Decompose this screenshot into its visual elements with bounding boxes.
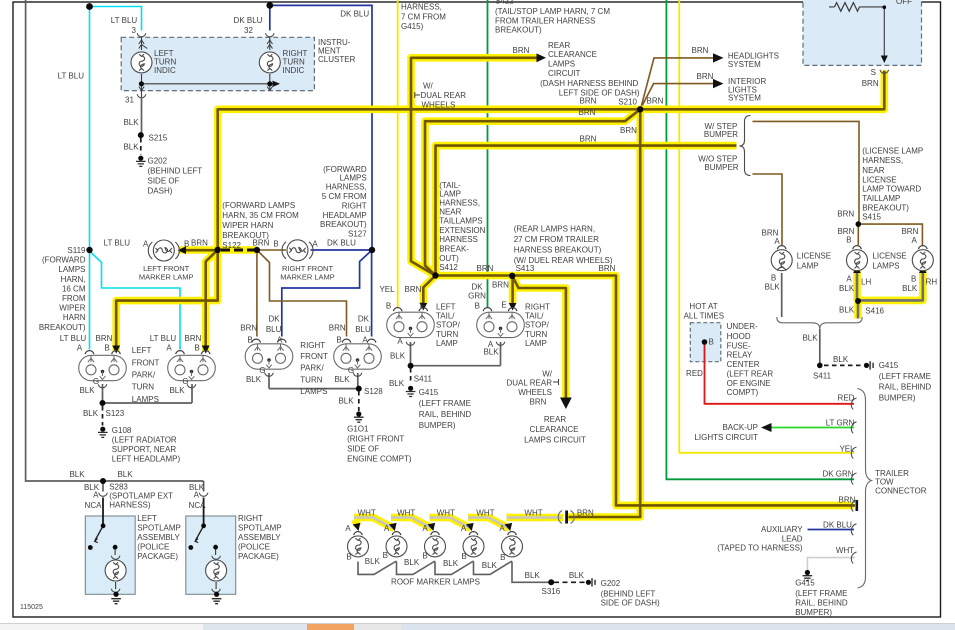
splice S416	[855, 298, 861, 304]
svg-text:LAMPS CIRCUIT: LAMPS CIRCUIT	[524, 436, 586, 445]
svg-text:S416: S416	[865, 307, 884, 316]
wire BRN S210 to interior lights system	[641, 84, 714, 109]
svg-text:S413: S413	[516, 264, 535, 273]
wire BLK cluster pin 31 to S215	[141, 98, 143, 135]
arrow into right tail lamp E	[509, 303, 517, 311]
svg-text:BRN: BRN	[647, 97, 664, 106]
band: roof marker WHT chain	[354, 518, 563, 529]
svg-text:(RIGHT FRONT: (RIGHT FRONT	[347, 435, 404, 444]
svg-text:BRN: BRN	[329, 324, 346, 333]
svg-text:DK GRN: DK GRN	[822, 470, 853, 479]
svg-text:A: A	[194, 491, 200, 500]
svg-text:(LICENSE LAMP: (LICENSE LAMP	[862, 147, 923, 156]
svg-text:A: A	[774, 237, 780, 246]
connector pin 3	[137, 33, 146, 36]
connector S283 left A	[99, 493, 108, 496]
svg-text:32: 32	[244, 26, 253, 35]
wire BLK dashed S123 to G108	[102, 406, 104, 426]
core BRN: S412-S413 bus to trailer connector	[436, 276, 856, 506]
ground G415 under license lamps	[864, 361, 873, 369]
svg-text:BRN: BRN	[185, 334, 202, 343]
wire BRN w/ step bumper to S415	[753, 121, 860, 221]
svg-text:FROM TRAILER HARNESS: FROM TRAILER HARNESS	[495, 16, 595, 25]
svg-text:YEL: YEL	[379, 285, 395, 294]
arrows into roof marker lamps	[353, 523, 361, 531]
svg-text:G1O1: G1O1	[347, 425, 369, 434]
svg-text:WHT: WHT	[397, 509, 415, 518]
spotlamp right bulb	[206, 556, 227, 592]
arrow into RH license lamp ground	[919, 266, 927, 273]
svg-text:A: A	[461, 524, 467, 533]
core BRN: S412 riser bus y145 to step bumper brace	[436, 146, 737, 276]
svg-text:B: B	[846, 236, 851, 245]
svg-text:LICENSE: LICENSE	[797, 252, 831, 261]
wire BLK left frame run to spotlamps	[26, 0, 204, 481]
svg-text:S411: S411	[414, 375, 433, 384]
svg-text:BREAK-: BREAK-	[439, 244, 469, 253]
svg-text:RAIL, BEHIND: RAIL, BEHIND	[795, 599, 848, 608]
svg-text:BLK: BLK	[839, 306, 855, 315]
roof marker lamp 1	[348, 532, 369, 557]
svg-text:G: G	[348, 366, 354, 375]
svg-text:DK BLU: DK BLU	[327, 239, 356, 248]
svg-text:A: A	[499, 524, 505, 533]
svg-text:RAIL, BEHIND: RAIL, BEHIND	[419, 410, 472, 419]
svg-text:ROOF MARKER LAMPS: ROOF MARKER LAMPS	[391, 578, 480, 587]
svg-text:B: B	[336, 336, 341, 345]
svg-text:A: A	[846, 275, 852, 284]
svg-text:5 CM FROM: 5 CM FROM	[322, 192, 367, 201]
wire BRN splice to right park lamp 2 pin B	[257, 250, 347, 337]
svg-text:HARN: HARN	[63, 313, 86, 322]
svg-text:RIGHT: RIGHT	[238, 514, 263, 523]
svg-text:BUMPER): BUMPER)	[419, 421, 456, 430]
wire BRN S210 to headlights system	[641, 58, 714, 109]
W/ DUAL REAR WHEELS tick no.2	[553, 379, 559, 385]
lamp LEFT TURN INDIC	[131, 40, 152, 91]
svg-text:WIPER: WIPER	[59, 304, 85, 313]
tick at roof chain inline connector	[565, 511, 568, 524]
svg-text:(BEHIND LEFT: (BEHIND LEFT	[601, 589, 656, 598]
svg-text:A: A	[345, 524, 351, 533]
wire BRN w/o step bumper to left license lamp A	[753, 174, 783, 245]
band: S412 riser from bus y121	[425, 109, 640, 275]
connector RT pin B	[483, 308, 492, 311]
core BRN: S412 to rear clearance top arrow	[411, 58, 537, 276]
svg-text:HARNESS,: HARNESS,	[439, 199, 480, 208]
underhood fuse-relay center dashed box	[690, 323, 721, 362]
svg-text:CIRCUIT: CIRCUIT	[548, 69, 581, 78]
svg-text:OFF: OFF	[896, 0, 912, 6]
connector LT pin A	[406, 342, 415, 345]
svg-text:B: B	[771, 274, 776, 283]
svg-text:(FORWARD: (FORWARD	[42, 256, 86, 265]
svg-text:S127: S127	[348, 229, 367, 238]
svg-text:PARK/: PARK/	[300, 364, 324, 373]
wire DK BLU top feed to cluster pin 32	[269, 5, 271, 30]
W/ DUAL REAR WHEELS tick no.1	[415, 92, 420, 98]
svg-text:RAIL, BEHIND: RAIL, BEHIND	[879, 383, 932, 392]
wire BLK left park lamps ground to junction	[103, 384, 193, 403]
wire DK BLU S127 to right park lamp 2 pin A	[371, 250, 373, 337]
connector L2 pin B	[201, 351, 210, 354]
connector R1 pin G	[265, 373, 274, 376]
band: S413 to rear clearance lamps circuit (down arrow)	[512, 276, 566, 398]
svg-text:DK: DK	[471, 283, 483, 292]
svg-text:BRN: BRN	[492, 281, 509, 290]
svg-text:NEAR: NEAR	[862, 166, 884, 175]
roof marker lamp 2	[386, 532, 407, 557]
node fuse center B	[702, 339, 708, 345]
svg-text:HARNESS,: HARNESS,	[326, 183, 367, 192]
svg-text:TURN: TURN	[436, 330, 458, 339]
svg-text:WHEELS: WHEELS	[518, 388, 552, 397]
svg-text:DK BLU: DK BLU	[823, 521, 852, 530]
svg-text:G108: G108	[112, 426, 132, 435]
svg-text:BRN: BRN	[580, 97, 597, 106]
switch contact right spotlamp	[201, 523, 206, 528]
svg-text:DK: DK	[358, 315, 370, 324]
svg-text:115025: 115025	[20, 604, 43, 611]
ground right spotlamp	[212, 592, 222, 604]
connector L1 pin A	[85, 351, 94, 354]
svg-text:BLK: BLK	[117, 470, 133, 479]
svg-text:WHT: WHT	[524, 509, 542, 518]
svg-text:WHT: WHT	[476, 509, 494, 518]
band: main feed from headlamp switch to S122	[218, 71, 885, 250]
node cluster left	[139, 81, 144, 86]
svg-text:MARKER LAMP: MARKER LAMP	[280, 273, 335, 282]
svg-text:BUMPER): BUMPER)	[795, 608, 832, 617]
tick at trailer BRN terminal	[856, 500, 859, 511]
svg-text:LEFT: LEFT	[137, 514, 157, 523]
svg-text:RH: RH	[926, 278, 938, 287]
svg-text:LAMPS: LAMPS	[340, 174, 367, 183]
svg-text:BLK: BLK	[69, 470, 85, 479]
svg-text:EXTENSION: EXTENSION	[439, 226, 485, 235]
svg-text:LAMPS: LAMPS	[872, 262, 899, 271]
svg-text:G415: G415	[879, 361, 899, 370]
core BRN: lamp B to S122	[180, 249, 218, 252]
band: S412-S413 bus and elbow down to trailer BRN	[436, 276, 855, 506]
svg-text:BLK: BLK	[525, 571, 541, 580]
svg-text:LEAD: LEAD	[782, 534, 803, 543]
svg-text:RED: RED	[838, 393, 855, 402]
svg-text:TURN: TURN	[525, 330, 547, 339]
wire WHT trailer connector to G415	[807, 558, 855, 570]
svg-text:BRN: BRN	[620, 126, 637, 135]
svg-text:ASSEMBLY: ASSEMBLY	[137, 533, 180, 542]
headlamp switch dashed box	[803, 0, 922, 65]
svg-text:BLK: BLK	[833, 355, 849, 364]
svg-text:FRONT: FRONT	[132, 358, 160, 367]
trailer tow connector brace	[858, 389, 872, 589]
svg-text:LAMP: LAMP	[525, 339, 547, 348]
svg-text:S215: S215	[149, 134, 168, 143]
svg-text:RIGHT: RIGHT	[525, 303, 550, 312]
svg-text:BREAKOUT): BREAKOUT)	[495, 26, 542, 35]
wire BRN splice to right marker lamp B	[257, 249, 286, 251]
svg-text:REAR: REAR	[548, 41, 570, 50]
svg-text:WHT: WHT	[358, 509, 376, 518]
highlighted circuit trace: yellow bands	[116, 58, 923, 529]
svg-text:SIDE OF: SIDE OF	[347, 445, 379, 454]
connector pin 32	[266, 33, 275, 36]
splice S411 left	[408, 363, 414, 369]
svg-text:SUPPORT, NEAR: SUPPORT, NEAR	[112, 445, 177, 454]
lamp assembly LEFT TAIL/STOP/TURN	[387, 312, 435, 337]
svg-text:BACK-UP: BACK-UP	[722, 423, 758, 432]
svg-text:BRN: BRN	[253, 239, 270, 248]
wire DK GRN riser to right tail lamp B	[487, 0, 489, 308]
svg-text:BLK: BLK	[443, 559, 459, 568]
svg-text:BRN: BRN	[837, 210, 854, 219]
svg-text:ASSEMBLY: ASSEMBLY	[238, 533, 281, 542]
arrow into left park lamp2 B	[202, 346, 210, 354]
svg-text:A: A	[166, 344, 172, 353]
wire BLK dashed S411 to G415	[410, 368, 412, 384]
svg-text:HOOD: HOOD	[727, 332, 751, 341]
wire BLK right park lamps ground to S128	[269, 373, 358, 389]
svg-text:BLU: BLU	[266, 325, 282, 334]
splice S316	[548, 579, 554, 585]
svg-text:BRN: BRN	[96, 334, 113, 343]
svg-text:27 CM FROM TRAILER: 27 CM FROM TRAILER	[514, 235, 599, 244]
lamp LICENSE LAMPS RH	[912, 246, 933, 271]
svg-text:ENGINE COMPT): ENGINE COMPT)	[347, 455, 412, 464]
wire BRN S415 to LH license lamp B	[857, 224, 859, 245]
svg-text:7 CM FROM: 7 CM FROM	[401, 13, 446, 22]
svg-text:(LEFT FRAME: (LEFT FRAME	[795, 589, 847, 598]
switch contact left spotlamp	[101, 523, 106, 528]
ground G202 behind dash	[136, 156, 146, 167]
svg-text:DK: DK	[268, 315, 280, 324]
arrow into left tail lamp E	[419, 303, 427, 311]
svg-text:GRN: GRN	[468, 291, 486, 300]
svg-text:SIDE OF DASH): SIDE OF DASH)	[601, 598, 660, 607]
wire BLK S283 drop left	[102, 481, 104, 492]
svg-text:G415: G415	[419, 388, 439, 397]
svg-text:BUMPER: BUMPER	[704, 130, 738, 139]
trailer tow connector terminal hooks	[851, 398, 856, 564]
svg-text:(LEFT RADIATOR: (LEFT RADIATOR	[112, 436, 177, 445]
svg-text:HOT AT: HOT AT	[689, 302, 717, 311]
svg-text:(SPOTLAMP EXT: (SPOTLAMP EXT	[109, 491, 173, 500]
svg-text:G415): G415)	[401, 22, 424, 31]
lamp assembly RIGHT TAIL/STOP/TURN	[477, 312, 525, 337]
svg-text:E: E	[501, 301, 506, 310]
svg-text:S119: S119	[67, 246, 86, 255]
arrow to interior lights system	[713, 79, 724, 88]
svg-text:INDIC: INDIC	[154, 66, 176, 75]
wire LT GRN back-up lights circuit	[763, 427, 854, 429]
svg-text:G: G	[259, 366, 265, 375]
connector R2 pin G	[353, 373, 362, 376]
svg-text:WIPER HARN: WIPER HARN	[222, 221, 273, 230]
svg-text:BLK: BLK	[169, 386, 185, 395]
svg-text:LEFT: LEFT	[132, 346, 152, 355]
wire LT BLU riser to S119 and lamp A	[89, 7, 91, 350]
svg-text:LT BLU: LT BLU	[111, 16, 138, 25]
connector S at headlamp switch	[880, 70, 889, 73]
svg-text:A: A	[384, 524, 390, 533]
svg-text:LAMP TOWARD: LAMP TOWARD	[862, 185, 921, 194]
svg-text:LT BLU: LT BLU	[58, 72, 85, 81]
wire BLK roof marker lamp grounds stair	[358, 561, 551, 582]
svg-text:BRN: BRN	[839, 496, 856, 505]
svg-text:B: B	[386, 302, 391, 311]
svg-text:BLK: BLK	[483, 348, 499, 357]
svg-text:LAMPS: LAMPS	[132, 395, 159, 404]
svg-text:LAMP: LAMP	[436, 339, 458, 348]
splice S122	[215, 247, 221, 253]
svg-text:RELAY: RELAY	[727, 351, 753, 360]
svg-text:DK BLU: DK BLU	[340, 9, 369, 18]
svg-text:BRN: BRN	[191, 239, 208, 248]
resistor leads in headlamp switch	[829, 6, 884, 8]
svg-text:REAR: REAR	[544, 415, 566, 424]
svg-text:TAILLAMPS: TAILLAMPS	[439, 217, 482, 226]
svg-text:HARN,: HARN,	[61, 275, 86, 284]
wire LT BLU S119 branch to left front park lamp 2 pin A	[90, 251, 181, 350]
arrow headlamp switch internal	[881, 56, 888, 64]
wire YEL riser to left tail lamp B	[397, 0, 399, 308]
svg-text:(DASH HARNESS BEHIND: (DASH HARNESS BEHIND	[540, 79, 638, 88]
svg-text:DASH): DASH)	[148, 187, 173, 196]
svg-text:YEL: YEL	[839, 445, 855, 454]
svg-text:BRN: BRN	[580, 134, 597, 143]
right spotlamp assembly box	[186, 516, 236, 594]
wire BLK dashed S215 to G202	[140, 138, 142, 155]
lamp RIGHT TURN INDIC	[259, 40, 280, 91]
svg-text:BLK: BLK	[334, 375, 350, 384]
svg-text:RIGHT: RIGHT	[300, 341, 325, 350]
wire BLK S283 drop right	[203, 481, 205, 492]
arrow into LH license lamp ground	[853, 266, 861, 273]
core WHT: roof marker chain	[354, 518, 562, 529]
wire NCA into left spotlamp switch	[102, 498, 104, 526]
roof marker lamp 3	[425, 532, 446, 557]
svg-text:BRN: BRN	[862, 79, 879, 88]
band: S412 riser from bus y145	[436, 146, 737, 276]
svg-text:FRONT: FRONT	[300, 352, 328, 361]
node top LT BLU	[86, 3, 93, 10]
lamp assembly LEFT FRONT PARK/TURN no.2	[168, 355, 216, 380]
svg-text:(TAPED TO HARNESS): (TAPED TO HARNESS)	[717, 544, 803, 553]
svg-text:B: B	[709, 338, 714, 347]
svg-text:SYSTEM: SYSTEM	[728, 60, 761, 69]
svg-text:BRN: BRN	[901, 227, 918, 236]
cluster left indicator drop	[141, 37, 143, 97]
splice S283	[100, 478, 106, 484]
step bumper options brace	[740, 116, 751, 176]
svg-text:SYSTEM: SYSTEM	[728, 94, 761, 103]
svg-text:BRN: BRN	[240, 324, 257, 333]
left spotlamp assembly box	[85, 516, 135, 594]
svg-text:LEFT: LEFT	[436, 303, 456, 312]
svg-text:G202: G202	[148, 157, 168, 166]
headlamp switch internal wire	[883, 7, 885, 56]
svg-text:(LEFT FRAME: (LEFT FRAME	[419, 399, 471, 408]
svg-text:FROM: FROM	[62, 294, 86, 303]
splice right of S122	[254, 247, 260, 253]
svg-text:TURN: TURN	[132, 383, 154, 392]
svg-text:CLEARANCE: CLEARANCE	[548, 50, 597, 59]
spotlamp right switch wires	[196, 526, 204, 541]
svg-text:TAIL/: TAIL/	[525, 312, 544, 321]
svg-text:WHEELS: WHEELS	[422, 100, 456, 109]
svg-text:31: 31	[125, 96, 134, 105]
splice S415	[856, 221, 862, 227]
splice S210	[637, 106, 643, 112]
svg-text:HARN, 35 CM FROM: HARN, 35 CM FROM	[222, 211, 299, 220]
wire BLK brace to S411	[819, 329, 821, 365]
svg-text:WHT: WHT	[836, 546, 854, 555]
label S127 block	[320, 165, 367, 238]
svg-text:BLK: BLK	[902, 284, 918, 293]
spotlamp right bulb drop	[215, 547, 218, 589]
lamp LICENSE LAMPS LH	[847, 246, 868, 271]
svg-text:BUMPER: BUMPER	[704, 163, 738, 172]
arrowheads	[112, 53, 926, 531]
core BRN: S210 riser to roof marker chain connector	[569, 109, 641, 517]
svg-text:LH: LH	[861, 278, 871, 287]
svg-text:TOW: TOW	[875, 478, 894, 487]
spotlamp left bulb	[105, 556, 126, 592]
svg-text:A: A	[397, 337, 403, 346]
svg-text:B: B	[383, 551, 388, 560]
splice S119	[86, 247, 92, 253]
ground left spotlamp	[111, 592, 121, 604]
svg-text:BLK: BLK	[338, 397, 354, 406]
svg-text:A: A	[93, 491, 99, 500]
svg-text:A: A	[277, 336, 283, 345]
svg-text:LT BLU: LT BLU	[150, 334, 177, 343]
connector R1 pin A	[278, 339, 287, 342]
connector RT pin A	[496, 342, 505, 345]
svg-text:BLK: BLK	[802, 334, 818, 343]
svg-text:PARK/: PARK/	[132, 371, 156, 380]
svg-text:CONNECTOR: CONNECTOR	[875, 486, 927, 495]
svg-text:PACKAGE): PACKAGE)	[137, 552, 178, 561]
svg-text:(REAR LAMPS HARN,: (REAR LAMPS HARN,	[514, 225, 595, 234]
svg-text:A: A	[912, 236, 918, 245]
lamp LICENSE LAMP left	[771, 246, 792, 271]
svg-text:STOP/: STOP/	[525, 321, 550, 330]
svg-text:LAMP: LAMP	[797, 262, 819, 271]
svg-text:B: B	[184, 240, 189, 249]
svg-text:BLK: BLK	[123, 143, 139, 152]
svg-text:LEFT SIDE OF DASH): LEFT SIDE OF DASH)	[559, 89, 640, 98]
band: S122 to left park lamp 2 B	[206, 250, 218, 351]
wire BLK dashed S411 to G415 right	[824, 364, 862, 366]
svg-text:G: G	[93, 377, 99, 386]
svg-text:BRN: BRN	[405, 285, 422, 294]
svg-text:DUAL REAR: DUAL REAR	[507, 379, 553, 388]
svg-text:W/: W/	[423, 81, 434, 90]
svg-text:B: B	[461, 552, 466, 561]
wire RED fuse center to trailer connector	[705, 344, 855, 404]
spotlamp left bulb drop	[114, 547, 117, 589]
connector R2 pin A	[367, 339, 376, 342]
svg-text:S122: S122	[222, 241, 241, 250]
svg-text:B: B	[475, 301, 480, 310]
svg-text:BREAKOUT): BREAKOUT)	[862, 204, 909, 213]
spotlamp switch open arrowheads	[95, 539, 199, 543]
roof chain inline connector arcs	[558, 511, 574, 524]
svg-text:BRN: BRN	[692, 46, 709, 55]
svg-text:CLEARANCE: CLEARANCE	[530, 425, 579, 434]
